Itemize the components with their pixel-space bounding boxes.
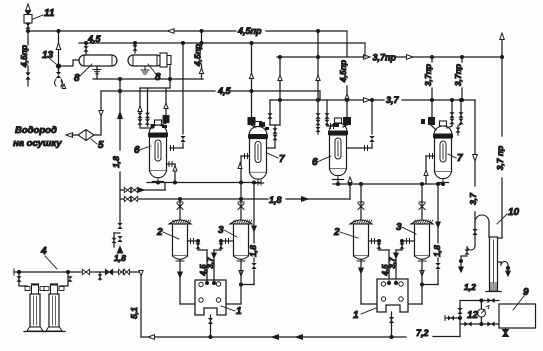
svg-text:3,7пр: 3,7пр bbox=[373, 53, 397, 63]
svg-text:4,5пр: 4,5пр bbox=[193, 44, 203, 67]
svg-text:2: 2 bbox=[333, 227, 340, 238]
svg-text:4: 4 bbox=[40, 246, 47, 257]
svg-text:3: 3 bbox=[218, 225, 224, 236]
svg-text:11: 11 bbox=[44, 8, 55, 19]
svg-text:7: 7 bbox=[457, 153, 463, 164]
svg-text:4,5пр: 4,5пр bbox=[338, 60, 348, 83]
svg-text:12: 12 bbox=[467, 310, 479, 321]
svg-text:3: 3 bbox=[396, 222, 402, 233]
svg-text:7,2: 7,2 bbox=[416, 328, 429, 338]
svg-text:6: 6 bbox=[312, 157, 318, 168]
svg-text:1,8: 1,8 bbox=[269, 195, 282, 205]
svg-text:1,8: 1,8 bbox=[111, 156, 121, 168]
svg-text:3,7 пр: 3,7 пр bbox=[495, 146, 505, 171]
svg-text:2: 2 bbox=[156, 227, 163, 238]
svg-text:1,8: 1,8 bbox=[248, 245, 258, 257]
svg-text:5: 5 bbox=[98, 140, 104, 151]
svg-text:4,5: 4,5 bbox=[87, 34, 102, 44]
svg-text:3,7: 3,7 bbox=[206, 257, 215, 269]
svg-text:1,2: 1,2 bbox=[464, 282, 476, 292]
svg-text:8: 8 bbox=[74, 73, 80, 84]
svg-text:3,7: 3,7 bbox=[468, 192, 478, 205]
svg-text:1: 1 bbox=[236, 306, 242, 317]
svg-text:3,7: 3,7 bbox=[386, 95, 400, 105]
svg-text:4,5: 4,5 bbox=[217, 86, 232, 96]
svg-text:13: 13 bbox=[42, 50, 54, 61]
svg-text:7: 7 bbox=[279, 154, 285, 165]
svg-text:1: 1 bbox=[353, 310, 359, 321]
svg-text:3,7пр: 3,7пр bbox=[453, 64, 463, 86]
svg-text:Водород: Водород bbox=[15, 125, 57, 136]
svg-text:4,5пр: 4,5пр bbox=[237, 26, 262, 36]
svg-text:на осушку: на осушку bbox=[13, 138, 62, 149]
svg-text:5,1: 5,1 bbox=[129, 307, 139, 319]
svg-text:10: 10 bbox=[508, 207, 520, 218]
svg-text:1,8: 1,8 bbox=[432, 245, 442, 257]
svg-text:6: 6 bbox=[134, 145, 140, 156]
svg-text:3,7пр: 3,7пр bbox=[423, 64, 433, 86]
svg-text:4,5пр: 4,5пр bbox=[19, 45, 29, 68]
svg-text:3,7: 3,7 bbox=[388, 257, 397, 269]
svg-text:1,8: 1,8 bbox=[114, 253, 126, 263]
